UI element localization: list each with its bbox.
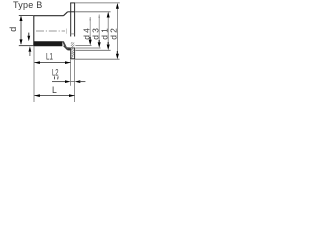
extension line d1 bottom: [75, 49, 110, 51]
L right arrow: [69, 94, 75, 97]
svg-text:Type B: Type B: [13, 0, 43, 10]
wall thickness lower arrow: [29, 46, 32, 51]
socket bore tick: [71, 33, 75, 35]
extension line d bottom: [19, 45, 34, 47]
svg-text:d2: d2: [109, 26, 119, 40]
extension line d1 top: [75, 11, 111, 13]
dimension d1 top arrow: [107, 12, 110, 18]
dimension d4 bottom arrow: [89, 40, 92, 46]
sleeve step top edge: [68, 11, 75, 13]
extension line L1 right: [70, 59, 72, 86]
L1 left arrow: [34, 61, 40, 64]
stray tick near cone: [66, 29, 68, 34]
dimension d3 bottom arrow: [98, 42, 101, 48]
dimension d3 line: [98, 15, 100, 42]
collar width left arrow: [65, 80, 71, 83]
cone section band: [62, 41, 71, 49]
collar width dimension line left tail: [52, 81, 66, 83]
dimension L line: [34, 95, 74, 97]
sleeve bottom edge: [68, 49, 71, 51]
extension line d4 bottom: [75, 45, 91, 47]
extension line d top: [19, 15, 34, 17]
dimension d1 bottom arrow: [107, 45, 110, 51]
label tick marks: [54, 76, 58, 79]
flange collar: [70, 3, 75, 59]
collar width right arrow: [75, 80, 81, 83]
extension line d2 bottom: [75, 58, 120, 60]
L left arrow: [34, 94, 40, 97]
svg-text:L: L: [52, 85, 57, 96]
dimension d top arrow: [20, 16, 23, 21]
dimension L1 line: [34, 62, 70, 64]
socket bore edge: [67, 47, 75, 49]
dimension d bottom arrow: [20, 39, 23, 44]
collar ring hatch: [71, 42, 75, 58]
extension line L2 right: [74, 59, 76, 102]
wall thickness upper arrow: [27, 36, 30, 41]
svg-text:d: d: [8, 27, 18, 32]
svg-text:L1: L1: [46, 52, 53, 63]
centerline: [36, 30, 65, 32]
dimension d1 line: [107, 13, 109, 44]
svg-text:L2: L2: [52, 67, 59, 78]
cone bottom outer edge: [64, 46, 68, 50]
extension line left face: [33, 46, 35, 102]
collar width right tail: [80, 81, 86, 83]
extension line d3 bottom: [75, 47, 100, 49]
dimension d2 line: [116, 4, 118, 53]
tube outline: [33, 12, 67, 46]
dimension d4 line: [89, 17, 91, 39]
collar width mid segment: [71, 81, 75, 83]
dimension d2 top arrow: [116, 3, 119, 9]
section wall band: [33, 41, 62, 46]
extension line d2 top: [75, 2, 120, 4]
dimension d2 bottom arrow: [116, 54, 119, 60]
L1 right arrow: [65, 61, 71, 64]
dimension d line: [20, 17, 22, 45]
